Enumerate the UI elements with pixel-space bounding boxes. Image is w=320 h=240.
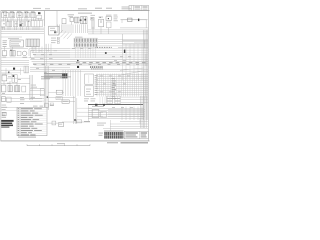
bus label row [90,66,103,69]
wire bus [88,108,144,110]
wire bus [1,31,44,33]
wire riser [29,75,31,100]
device box U6 [101,112,107,118]
wire drop [137,44,139,80]
wire bus [96,80,148,82]
wire [98,45,149,47]
wire drop [48,44,50,52]
wire bus [96,82,148,84]
wire angled [67,34,72,40]
wire drop [109,74,111,97]
wire stub [30,97,44,98]
logo stamp [1,120,13,128]
wire [1,36,22,38]
net label LEFT1 [31,85,38,88]
net label U7 [84,120,90,123]
wire [1,60,29,62]
node junction dot [8,72,10,74]
wire [1,107,17,109]
wire drop [141,107,143,121]
diode D1 [38,12,41,14]
wire drop [65,70,67,96]
wire drop [144,40,146,47]
wire bus [32,60,70,62]
device box U5 [92,110,99,118]
wire bus [1,32,44,34]
node tap [77,66,79,68]
switch S2 [13,21,17,27]
wire drop [45,44,47,50]
wire bus [88,114,144,116]
wire drop [75,70,77,96]
wire drop [80,70,82,96]
title block parts table [104,132,123,139]
wire [33,18,35,21]
ground tick [95,104,105,106]
wire bus [96,93,148,95]
wire [1,109,17,111]
node junction dot [13,68,15,70]
wire [103,128,148,130]
wire drop [88,106,90,123]
wire bus [30,50,70,52]
wire [108,111,145,113]
net label marks [3,15,28,24]
net label LEFT3 [2,112,7,117]
wire label marks [100,75,130,78]
wire bus [88,112,144,114]
wire [1,62,29,64]
switch S3 [91,15,96,29]
bus label band left [33,63,70,66]
wire [110,125,148,127]
wire bus [70,55,148,57]
device box U7 [76,120,82,123]
wire angled [64,33,70,39]
wire [68,24,70,33]
wire bus [33,62,70,64]
wire [30,89,44,91]
wire drop [85,47,87,58]
wire drop [111,74,113,97]
wire riser [30,75,32,100]
wire [1,64,29,66]
wire drop [129,44,131,80]
wire [85,24,87,33]
relay K13 [2,74,7,81]
wire [120,120,148,122]
device box X3 [2,112,6,116]
title block name panel [124,131,148,138]
wire bus [88,118,144,120]
wire label marks [112,55,131,58]
wire row divider [1,27,44,29]
scale bar [27,143,90,146]
wire [5,18,7,21]
component labels [2,76,21,93]
wire [121,19,148,21]
bus label band2 [72,47,91,50]
fuse F1 [1,21,5,28]
wire drop [145,54,147,66]
wire [13,27,15,30]
wire bus [70,57,148,59]
wire riser [43,66,45,110]
wire [118,47,148,49]
wire [19,27,21,30]
wire [98,38,149,40]
fuse F2 [2,51,7,58]
wire bus [120,27,148,29]
wire [36,27,38,30]
revision note [97,123,106,126]
wire [1,83,30,85]
wire [134,41,148,43]
wire [7,18,9,21]
wire drop [100,74,102,97]
terminal lugs X1 [107,96,113,103]
wire riser [45,44,47,66]
wire [1,72,20,74]
relay K5 [31,11,36,18]
wire [9,27,11,30]
notes title [33,106,43,107]
wire [79,24,81,33]
wire [3,18,5,21]
wire fan [120,68,144,75]
wire drop [98,74,100,97]
relay K9 [75,17,80,23]
notes table rules [17,109,47,133]
wire [4,27,6,30]
wire stub [145,20,147,28]
wire drop [67,70,69,96]
wire [32,27,34,30]
terminal strip labels [84,98,96,101]
wire [57,24,59,33]
wire [62,121,90,123]
pushbutton PB2 [59,123,64,127]
wire riser [145,30,147,120]
wire [61,24,63,33]
wire bus [70,60,148,62]
wire drop [16,82,18,86]
net label header E [33,7,41,10]
wire riser [144,30,146,120]
wire drop [129,107,131,121]
wire bus [70,48,148,50]
sheet reference box [129,6,149,11]
wire [98,43,149,45]
wire [38,18,40,21]
wire bus [30,66,70,68]
contact S4 [17,51,21,56]
wire drop [92,27,94,34]
net label header B [95,8,102,9]
wire riser [44,26,46,66]
wire [59,24,61,33]
wire [10,18,12,21]
relay K11 [99,17,104,27]
wire drop [35,47,37,54]
wire drop [105,74,107,97]
wire [64,24,66,33]
wire [72,24,74,33]
wire angled [58,30,64,36]
contact box S7 [40,89,44,96]
device box U3 [56,97,62,100]
wire drop [5,68,7,75]
wire drop [103,74,105,97]
wire drop [136,74,138,97]
value label column [114,15,118,22]
wire bus [32,51,70,53]
relay K16 [7,97,11,102]
net label NET3 [51,42,59,44]
wire drop [139,118,141,124]
node TP2 [80,19,82,21]
wire bus [33,53,70,55]
wire bus [34,64,70,66]
wire [15,27,17,30]
cable harness W01 [44,73,68,78]
wire drop [118,74,120,97]
wire bus [88,116,144,118]
wire drop [82,47,84,58]
wire bus [96,78,148,80]
wire drop [127,74,129,97]
wire drop [32,47,34,54]
wire [40,18,42,21]
fuse F4 [2,97,6,102]
wire drop [120,74,122,97]
ground bus label [92,106,104,107]
net label NET1 [51,37,59,39]
wire [77,24,79,33]
wire drop [96,74,98,97]
pin number row [96,47,112,48]
wire label marks [103,83,126,86]
wire [2,27,4,30]
wire drop [4,47,6,52]
wire [1,100,42,102]
net label LEFT2 [2,105,8,110]
wire drop [122,74,124,97]
junction box JB2 [85,86,94,97]
wire drop [142,74,144,97]
wire [121,101,148,103]
pin label column [95,75,98,95]
node junction [138,19,139,22]
polarity mark [124,50,125,53]
wire [48,100,75,102]
wire [21,18,23,21]
wire drop [110,120,112,131]
wire [123,43,149,45]
wire [34,27,36,30]
wire [1,93,44,95]
title block left note [99,133,104,136]
junction box J1 [49,26,59,35]
wire [28,27,30,30]
wire [75,24,77,33]
device box U2 [48,90,64,94]
wire riser bundle [141,96,147,128]
wire [38,27,40,30]
wire [30,87,44,89]
junction box JB1 [85,74,94,84]
resistor R1 [62,19,66,24]
solenoid L1 [106,15,112,28]
fuse F3 [2,85,6,92]
wire label marks [112,106,133,109]
wire jog [29,51,31,58]
wire [1,98,42,100]
wire [66,24,68,33]
wire drop [72,70,74,96]
wire bus [88,33,148,35]
title block header row [104,131,123,132]
wire drop [141,44,143,80]
node junction dot [74,119,76,121]
wire drop [108,28,110,34]
notes caption [18,137,36,138]
wire drop [137,107,139,121]
wire riser pair [74,96,77,124]
wire frame right border [147,11,149,141]
wire [12,18,14,21]
wire drop [100,27,102,34]
inductor L2 [128,18,133,21]
title block caption [107,142,148,143]
motor M1 [22,51,27,57]
wire bus [96,74,148,76]
wire label marks [100,91,121,94]
wire [81,24,83,33]
relay K1 [2,11,9,18]
wire riser [46,66,48,110]
wire bus [96,90,148,92]
node junction dot [77,60,79,62]
net label row [8,37,19,40]
wire drop [80,47,82,58]
wire jog [28,49,30,56]
wire drop [129,74,131,97]
wire angled [61,32,67,38]
wire [1,65,24,67]
wire bus [88,110,144,112]
wire [108,109,145,111]
wire [17,18,19,21]
wire bus [70,62,148,64]
wire [1,57,29,59]
wire drop [144,74,146,97]
wire [1,48,28,50]
wire drop [121,107,123,121]
wire bus [30,68,148,70]
wire frame top border [1,10,150,12]
wire drop [138,74,140,97]
wire bus [70,59,148,61]
relay K7 [19,21,24,27]
wire drop [125,44,127,80]
wire drop [70,70,72,96]
connector P1 label [75,36,83,39]
relay K6 [7,21,12,27]
wire [123,39,149,41]
terminal strip TB2 [26,39,40,47]
wire [87,24,89,33]
terminal lugs X2 [115,96,121,103]
wire riser [56,11,58,26]
contact S6 [22,86,26,92]
harness label row [41,76,71,79]
wire drop [125,107,127,121]
relay K12 [10,50,15,56]
wire drop [20,68,22,75]
wire drop [75,47,77,58]
wire riser [45,66,47,110]
wire drop [125,74,127,97]
wire bus [70,50,148,52]
wire [47,122,58,124]
wire drop [41,47,43,54]
wire drop [114,74,116,97]
relay K14 [8,86,12,92]
mid line marks [36,68,55,73]
wire drop [62,70,64,96]
wire [128,45,148,47]
terminal block TB3 [24,66,29,73]
wire drop [38,47,40,54]
wire bus [1,29,44,31]
wire [121,96,148,98]
wire [7,77,30,79]
wire [19,18,21,21]
wire bus [70,53,148,55]
wire drop [95,47,97,58]
wire stub [121,20,123,23]
ground bus [88,104,143,106]
relay K2 [10,11,15,18]
net label header F [45,7,50,10]
wire drop [9,81,11,86]
notes table frame [17,107,47,135]
wire bus [30,70,148,72]
wire [110,123,148,125]
capacitor C1 label [68,14,75,17]
wire frame left border [0,11,2,141]
wire bus [88,31,148,33]
wire [83,24,85,33]
wire frame bottom border [1,140,150,142]
wire [62,24,64,33]
control box U1 [10,40,23,47]
wire bus [96,88,148,90]
wire bus [29,48,70,50]
wire [1,73,12,75]
wire drop set [100,97,120,105]
device box U4 [62,100,69,103]
wire [7,27,9,30]
notes text rows [18,108,43,135]
wire [48,97,75,99]
net label header A [78,8,87,9]
connector P1 row A [74,38,98,42]
wire label marks [31,49,57,52]
wire bus [96,91,148,93]
wire [121,99,148,101]
